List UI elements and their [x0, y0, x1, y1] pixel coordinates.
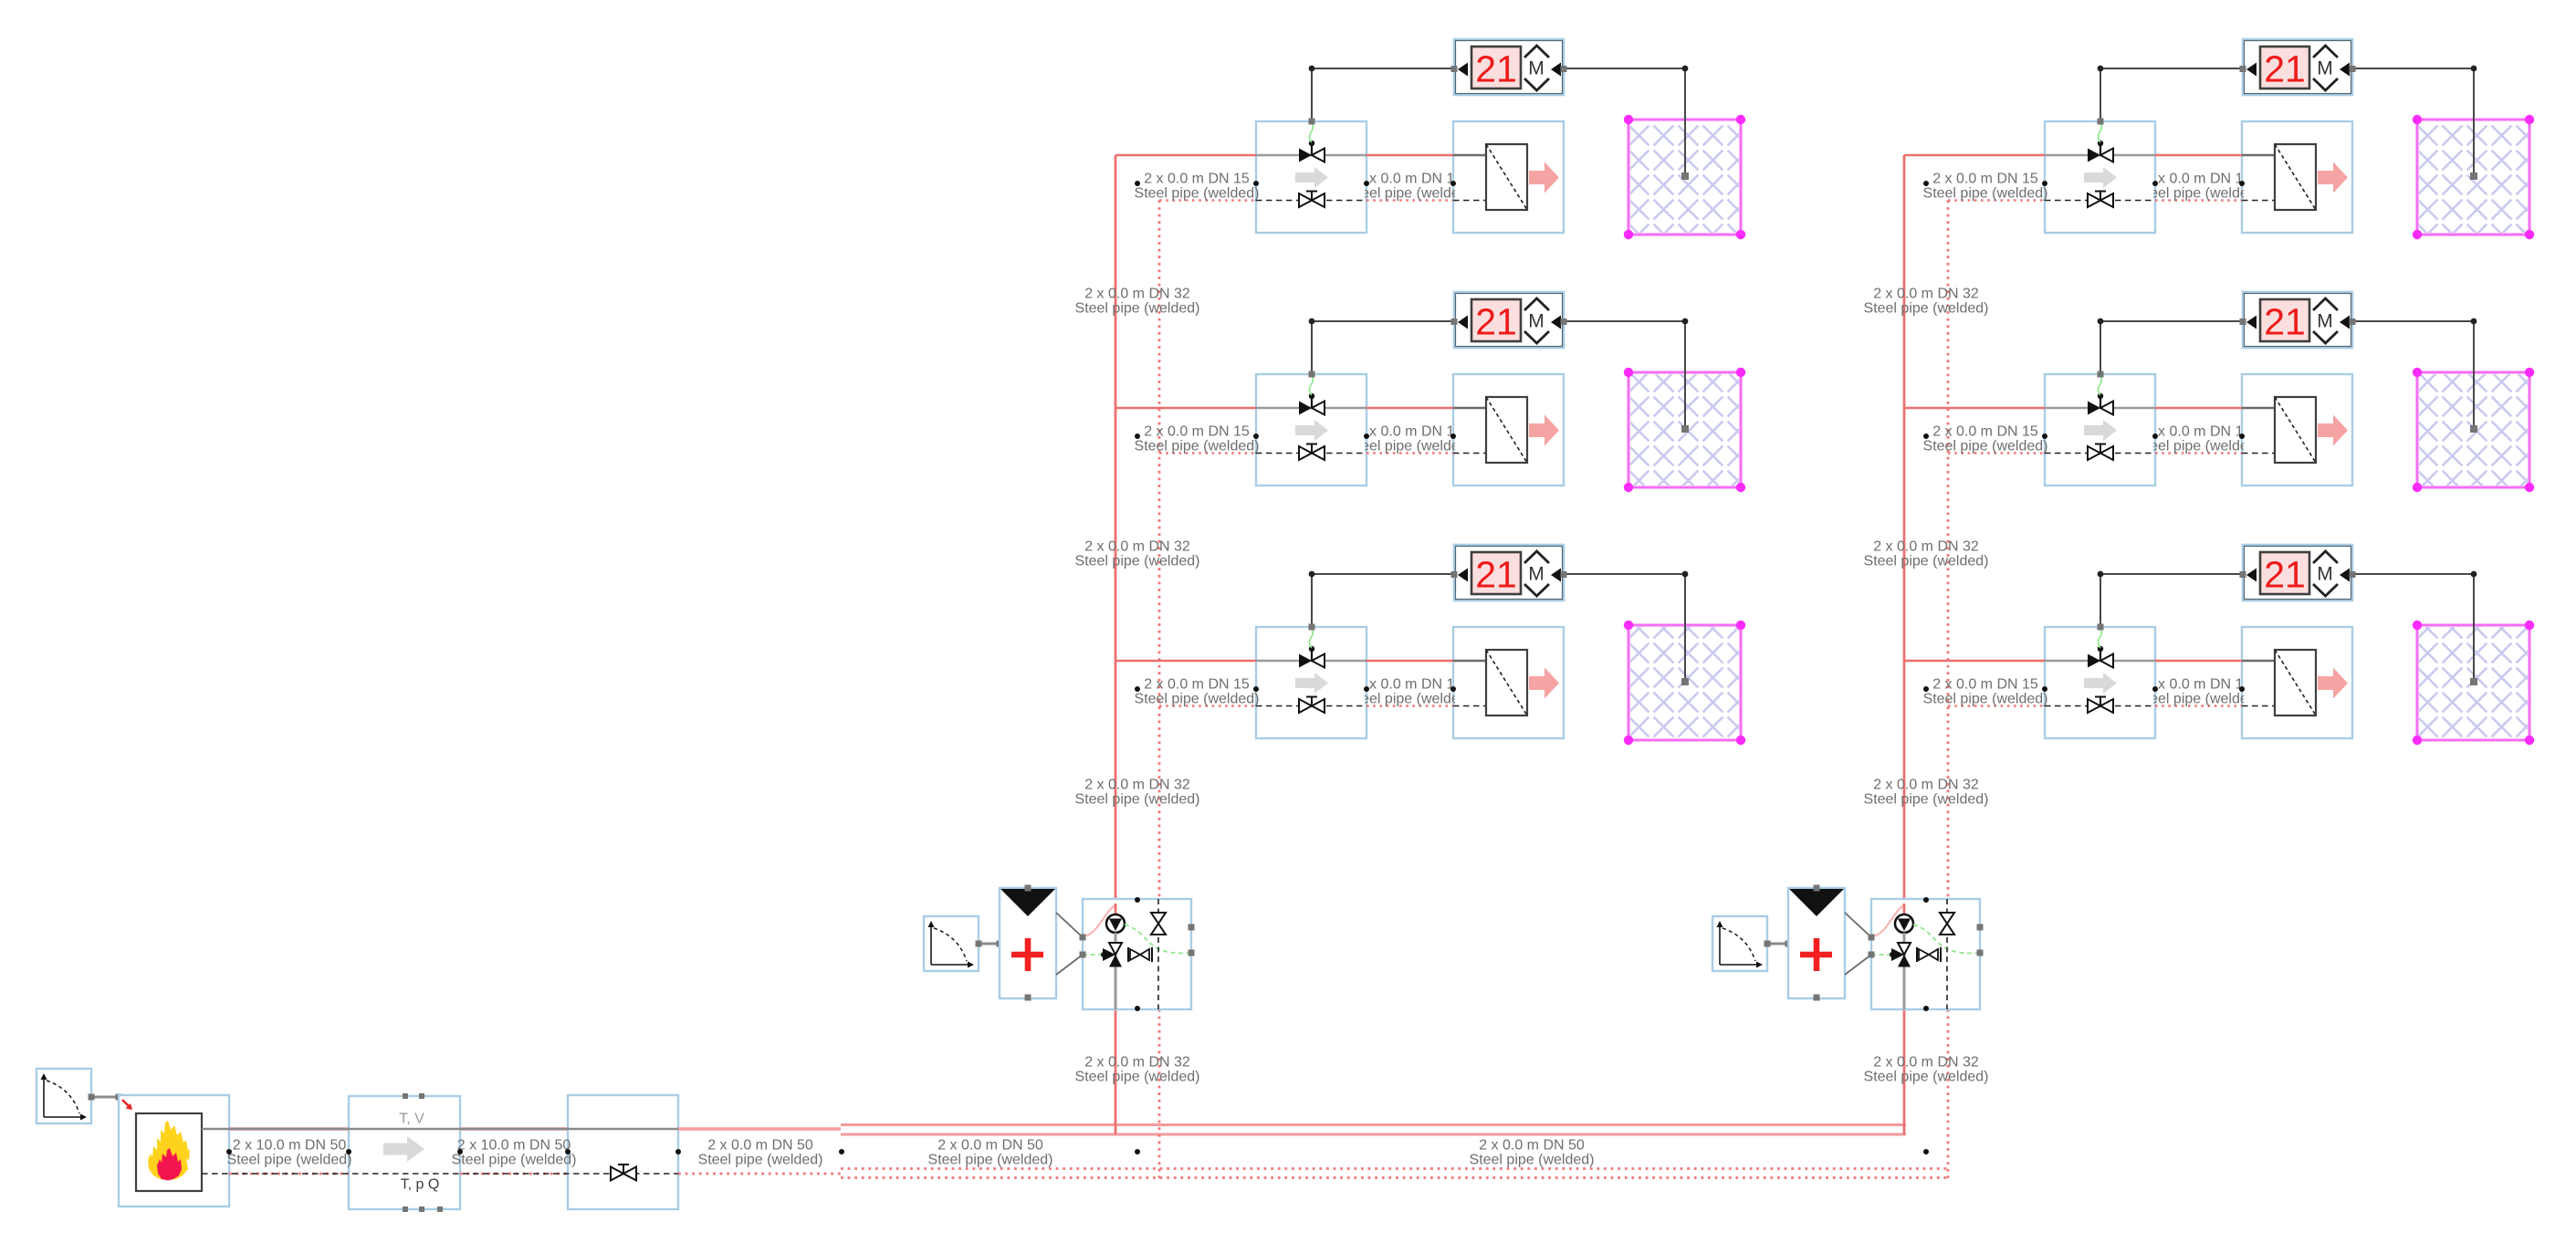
thermostatic valve TV2	[1299, 393, 1325, 415]
wire curve box to boiler	[89, 1094, 122, 1101]
pipe label DN15 riser-valve floor 1	[1135, 172, 1260, 202]
svg-text:2 x 0.0 m DN 15: 2 x 0.0 m DN 15	[1932, 677, 2038, 693]
thermostatic valve TV4	[2088, 141, 2113, 162]
pipe label DN15 riser-valve floor 3	[1135, 677, 1260, 707]
return pipe dotted boiler-junction	[229, 1173, 841, 1175]
svg-text:Steel pipe (welded): Steel pipe (welded)	[2136, 692, 2261, 707]
heat output arrow 5	[2318, 415, 2348, 446]
svg-text:21: 21	[2264, 48, 2306, 90]
svg-text:Steel pipe (welded): Steel pipe (welded)	[1075, 792, 1200, 808]
svg-text:2 x 10.0 m DN 50: 2 x 10.0 m DN 50	[457, 1138, 571, 1154]
supply line inside valve group 4	[2045, 154, 2155, 157]
lockshield valve LV4	[2088, 192, 2113, 208]
room R1	[1624, 115, 1745, 239]
supply pipe riser to valve group floor 3	[1115, 660, 1256, 663]
flow direction arrow in valve group 5	[2084, 420, 2117, 441]
room R6	[2413, 621, 2534, 745]
svg-text:2 x 0.0 m DN 50: 2 x 0.0 m DN 50	[937, 1138, 1043, 1154]
actuator link in valve group 2	[1309, 375, 1313, 395]
riser pipe label DN32 L2	[1075, 539, 1200, 569]
svg-text:2 x 0.0 m DN 15: 2 x 0.0 m DN 15	[1357, 424, 1463, 440]
svg-text:Steel pipe (welded): Steel pipe (welded)	[1347, 692, 1472, 707]
svg-text:2 x 0.0 m DN 32: 2 x 0.0 m DN 32	[1084, 778, 1190, 793]
three-way mixing valve R	[1891, 943, 1911, 967]
pipe junction dots floor 5	[1923, 433, 2245, 439]
measurement module M1	[349, 1093, 460, 1212]
supply pipe valve group to radiator floor 5	[2155, 407, 2242, 410]
return pipe riser to valve group floor 6	[1948, 705, 2045, 707]
supply gray line through boiler and modules	[202, 1128, 678, 1130]
room thermostat T1	[1451, 39, 1567, 95]
actuator link in valve group 6	[2098, 628, 2101, 648]
svg-text:Steel pipe (welded): Steel pipe (welded)	[1864, 301, 1989, 317]
boiler warning marker	[122, 1100, 132, 1110]
supply line inside valve group 2	[1256, 407, 1367, 410]
svg-text:Steel pipe (welded): Steel pipe (welded)	[1075, 301, 1200, 317]
pipe label DN15 valve-radiator floor 5	[2136, 424, 2261, 454]
pump group box R	[1871, 899, 1980, 1009]
pump outlet line L	[1115, 933, 1117, 1009]
svg-text:Steel pipe (welded): Steel pipe (welded)	[1135, 692, 1260, 707]
pipe label DN15 riser-valve floor 4	[1923, 172, 2048, 202]
svg-text:Steel pipe (welded): Steel pipe (welded)	[1923, 692, 2048, 707]
return line inside valve group 3	[1256, 705, 1367, 707]
return pipe valve group to radiator floor 1	[1367, 199, 1453, 202]
supply line inside valve group 3	[1256, 660, 1367, 663]
supply pipe valve group to radiator floor 4	[2155, 154, 2242, 157]
supply pipe valve group to radiator floor 6	[2155, 660, 2242, 663]
supply pipe measurement-valve	[460, 1127, 568, 1131]
return line inside valve group 2	[1256, 453, 1367, 454]
pipe junction dots floor 4	[1923, 181, 2245, 186]
pipe label DN50 riser L - riser R	[1470, 1138, 1595, 1168]
pipe label DN15 valve-radiator floor 1	[1347, 172, 1472, 202]
control wire room sensor to thermostat floor 6	[2352, 571, 2477, 685]
control wire room sensor to thermostat floor 3	[1564, 571, 1689, 685]
svg-text:21: 21	[2264, 301, 2306, 343]
radiator element 5	[2242, 397, 2316, 463]
expansion / pressure maintenance vessel L	[1000, 885, 1056, 1001]
pipe label DN50 junction-riser L	[928, 1138, 1053, 1168]
svg-text:Steel pipe (welded): Steel pipe (welded)	[1923, 186, 2048, 202]
wires expansion vessel to pump box R	[1845, 913, 1871, 975]
thermostatic valve TV1	[1299, 141, 1325, 162]
supply pipe valve-junction	[678, 1127, 841, 1131]
pipe label DN50 valve-junction	[698, 1138, 823, 1168]
pipe junction dots floor 2	[1135, 433, 1456, 439]
radiator box HX5	[2242, 374, 2352, 486]
svg-text:Steel pipe (welded): Steel pipe (welded)	[1864, 1070, 1989, 1085]
pipe junction dots floor 1	[1135, 181, 1456, 186]
control wire valve to thermostat floor 2	[1309, 319, 1455, 378]
supply pipe boiler-measurement	[229, 1127, 349, 1131]
svg-text:M: M	[2317, 58, 2333, 79]
svg-text:Steel pipe (welded): Steel pipe (welded)	[1470, 1153, 1595, 1168]
svg-text:2 x 0.0 m DN 32: 2 x 0.0 m DN 32	[1084, 1055, 1190, 1071]
pipe label DN50 measurement-valve	[452, 1138, 577, 1168]
svg-text:2 x 0.0 m DN 15: 2 x 0.0 m DN 15	[2146, 172, 2252, 187]
supply pipe valve group to radiator floor 2	[1367, 407, 1453, 410]
pipe junction dots floor 3	[1135, 686, 1456, 692]
svg-text:2 x 0.0 m DN 32: 2 x 0.0 m DN 32	[1873, 539, 1979, 555]
radiator box HX2	[1453, 374, 1564, 486]
pipe label DN15 valve-radiator floor 6	[2136, 677, 2261, 707]
thermostatic valve TV3	[1299, 646, 1325, 668]
heating curve box HC0	[37, 1069, 91, 1123]
return pipe valve group to radiator floor 2	[1367, 452, 1453, 454]
main return pipes from risers	[841, 1169, 1948, 1178]
svg-text:Steel pipe (welded): Steel pipe (welded)	[2136, 186, 2261, 202]
radiator element 1	[1453, 144, 1527, 210]
radiator element 4	[2242, 144, 2316, 210]
heat output arrow 1	[1529, 162, 1559, 193]
pipe junction dots floor 6	[1923, 686, 2245, 692]
supply pipe riser to valve group floor 6	[1904, 660, 2045, 663]
radiator box HX3	[1453, 627, 1564, 738]
svg-text:M: M	[1528, 564, 1545, 585]
radiator element 2	[1453, 397, 1527, 463]
svg-text:Steel pipe (welded): Steel pipe (welded)	[1075, 1070, 1200, 1085]
svg-text:Steel pipe (welded): Steel pipe (welded)	[1075, 554, 1200, 569]
lockshield valve LV1	[1299, 192, 1325, 208]
svg-text:21: 21	[2264, 554, 2306, 596]
heat output arrow 3	[1529, 668, 1559, 699]
return pipe riser to valve group floor 2	[1159, 452, 1256, 454]
riser pipe label DN32 R1	[1864, 287, 1989, 317]
svg-text:2 x 0.0 m DN 15: 2 x 0.0 m DN 15	[1144, 172, 1250, 187]
supply pipe riser to valve group floor 2	[1115, 407, 1256, 410]
valve group box V4	[2045, 121, 2155, 233]
lockshield valve LV3	[1299, 697, 1325, 714]
return line inside valve group 1	[1256, 200, 1367, 202]
flow direction arrow in valve group 1	[1295, 167, 1328, 188]
radiator element 6	[2242, 650, 2316, 716]
svg-text:2 x 0.0 m DN 15: 2 x 0.0 m DN 15	[1144, 677, 1250, 693]
shut-off valve module SV1	[568, 1095, 678, 1209]
svg-text:M: M	[2317, 311, 2333, 332]
return line in pump box L	[1157, 899, 1159, 1009]
control wire room sensor to thermostat floor 1	[1564, 66, 1689, 180]
supply line inside valve group 1	[1256, 154, 1367, 157]
circulation pump P-L	[1106, 914, 1125, 933]
thermostatic valve TV6	[2088, 646, 2113, 668]
flow direction arrow in valve group 4	[2084, 167, 2117, 188]
svg-text:2 x 0.0 m DN 15: 2 x 0.0 m DN 15	[1932, 172, 2038, 187]
heating curve box HC-R	[1712, 916, 1767, 971]
circulation pump P-R	[1895, 914, 1913, 933]
return dashed line through boiler and modules	[202, 1173, 678, 1175]
riser pipe label DN32 L1	[1075, 287, 1200, 317]
control wire valve to thermostat floor 6	[2098, 571, 2244, 631]
bottom chain junction dots	[226, 1149, 1929, 1154]
radiator box HX6	[2242, 627, 2352, 738]
svg-text:M: M	[1528, 58, 1545, 79]
svg-text:2 x 0.0 m DN 15: 2 x 0.0 m DN 15	[1357, 172, 1463, 187]
svg-text:2 x 10.0 m DN 50: 2 x 10.0 m DN 50	[233, 1138, 347, 1154]
supply pipe valve group to radiator floor 1	[1367, 154, 1453, 157]
svg-text:M: M	[2317, 564, 2333, 585]
pipe label DN15 riser-valve floor 6	[1923, 677, 2048, 707]
valve group box V6	[2045, 627, 2155, 738]
return pipe riser to valve group floor 3	[1159, 705, 1256, 707]
riser pipe label DN32 R3	[1864, 778, 1989, 808]
room R2	[1624, 368, 1745, 492]
valve group box V5	[2045, 374, 2155, 486]
svg-text:Steel pipe (welded): Steel pipe (welded)	[928, 1153, 1053, 1168]
room R5	[2413, 368, 2534, 492]
supply pipe riser to valve group floor 4	[1904, 154, 2045, 157]
main supply pipes to risers	[841, 1125, 1906, 1135]
return pipe valve group to radiator floor 4	[2155, 199, 2242, 202]
green control curve L	[1083, 924, 1191, 957]
return riser pipe L	[1158, 201, 1161, 1179]
three-way mixing valve L	[1103, 943, 1122, 967]
flow direction arrow in valve group 2	[1295, 420, 1328, 441]
return pipe riser to valve group floor 1	[1159, 199, 1256, 202]
control wire valve to thermostat floor 5	[2098, 319, 2244, 378]
bypass valve R	[1917, 947, 1941, 962]
green control curve R	[1871, 924, 1980, 957]
lockshield valve LV2	[1299, 444, 1325, 461]
svg-text:2 x 0.0 m DN 15: 2 x 0.0 m DN 15	[1932, 424, 2038, 440]
pump box nodes R	[1869, 897, 1984, 1011]
svg-text:Steel pipe (welded): Steel pipe (welded)	[1135, 439, 1260, 454]
room thermostat T2	[1451, 292, 1567, 348]
supply line inside valve group 5	[2045, 407, 2155, 410]
svg-text:2 x 0.0 m DN 50: 2 x 0.0 m DN 50	[707, 1138, 813, 1154]
riser pipe label DN32 L4	[1075, 1055, 1200, 1085]
heat output arrow 2	[1529, 415, 1559, 446]
control wire room sensor to thermostat floor 2	[1564, 319, 1689, 433]
svg-text:Steel pipe (welded): Steel pipe (welded)	[1347, 439, 1472, 454]
room thermostat T4	[2240, 39, 2356, 95]
control wire room sensor to thermostat floor 5	[2352, 319, 2477, 433]
return shut-off valve R	[1940, 913, 1954, 935]
pipe label DN15 valve-radiator floor 3	[1347, 677, 1472, 707]
valve group box V2	[1256, 374, 1367, 486]
svg-text:2 x 0.0 m DN 32: 2 x 0.0 m DN 32	[1873, 1055, 1979, 1071]
lockshield valve LV5	[2088, 444, 2113, 461]
wire curve box to expansion vessel L	[976, 941, 1003, 947]
flow direction arrow in valve group 3	[1295, 673, 1328, 694]
room R4	[2413, 115, 2534, 239]
lockshield valve LV6	[2088, 697, 2113, 714]
supply line inside valve group 6	[2045, 660, 2155, 663]
return pipe valve group to radiator floor 6	[2155, 705, 2242, 707]
svg-text:2 x 0.0 m DN 15: 2 x 0.0 m DN 15	[1144, 424, 1250, 440]
gate valve on return GV1	[611, 1165, 636, 1181]
svg-text:Steel pipe (welded): Steel pipe (welded)	[698, 1153, 823, 1168]
svg-text:T, V: T, V	[399, 1112, 424, 1127]
heating curve box HC-L	[924, 916, 979, 971]
control wire room sensor to thermostat floor 4	[2352, 66, 2477, 180]
return line inside valve group 5	[2045, 453, 2155, 454]
supply pipe riser to valve group floor 1	[1115, 154, 1256, 157]
control wire valve to thermostat floor 3	[1309, 571, 1455, 631]
svg-text:2 x 0.0 m DN 32: 2 x 0.0 m DN 32	[1084, 539, 1190, 555]
svg-text:T, p Q: T, p Q	[401, 1177, 440, 1193]
supply riser pipe L	[1115, 155, 1117, 1134]
room R3	[1624, 621, 1745, 745]
svg-text:2 x 0.0 m DN 32: 2 x 0.0 m DN 32	[1873, 778, 1979, 793]
room thermostat T3	[1451, 545, 1567, 601]
radiator box HX1	[1453, 121, 1564, 233]
burner flame icon	[148, 1121, 190, 1181]
pump box nodes L	[1080, 897, 1195, 1011]
return riser pipe R	[1947, 201, 1950, 1179]
thermostatic valve TV5	[2088, 393, 2113, 415]
flow direction arrow in valve group 6	[2084, 673, 2117, 694]
return shut-off valve L	[1151, 913, 1166, 935]
control wire valve to thermostat floor 4	[2098, 66, 2244, 125]
svg-text:Steel pipe (welded): Steel pipe (welded)	[452, 1153, 577, 1168]
supply entry curve R	[1871, 904, 1904, 936]
room thermostat T6	[2240, 545, 2356, 601]
pipe label DN15 valve-radiator floor 4	[2136, 172, 2261, 202]
svg-text:Steel pipe (welded): Steel pipe (welded)	[1864, 792, 1989, 808]
svg-text:Steel pipe (welded): Steel pipe (welded)	[1347, 186, 1472, 202]
svg-text:Steel pipe (welded): Steel pipe (welded)	[1923, 439, 2048, 454]
pump group box L	[1083, 899, 1191, 1009]
pipe label DN15 riser-valve floor 2	[1135, 424, 1260, 454]
svg-text:2 x 0.0 m DN 15: 2 x 0.0 m DN 15	[2146, 424, 2252, 440]
svg-text:Steel pipe (welded): Steel pipe (welded)	[227, 1153, 352, 1168]
supply riser pipe R	[1903, 155, 1906, 1134]
radiator element 3	[1453, 650, 1527, 716]
riser pipe label DN32 R2	[1864, 539, 1989, 569]
return pipe riser to valve group floor 4	[1948, 199, 2045, 202]
svg-text:2 x 0.0 m DN 15: 2 x 0.0 m DN 15	[1357, 677, 1463, 693]
heat output arrow 4	[2318, 162, 2348, 193]
return pipe riser to valve group floor 5	[1948, 452, 2045, 454]
return pipe valve group to radiator floor 5	[2155, 452, 2242, 454]
wire curve box to expansion vessel R	[1764, 941, 1792, 947]
valve group box V1	[1256, 121, 1367, 233]
svg-text:21: 21	[1475, 48, 1517, 90]
expansion / pressure maintenance vessel R	[1788, 885, 1845, 1001]
svg-text:2 x 0.0 m DN 32: 2 x 0.0 m DN 32	[1084, 287, 1190, 302]
actuator link in valve group 4	[2098, 122, 2101, 142]
valve group box V3	[1256, 627, 1367, 738]
return line inside valve group 4	[2045, 200, 2155, 202]
bypass valve L	[1128, 947, 1152, 962]
riser pipe label DN32 L3	[1075, 778, 1200, 808]
room thermostat T5	[2240, 292, 2356, 348]
supply entry curve L	[1083, 904, 1115, 936]
radiator box HX4	[2242, 121, 2352, 233]
svg-text:Steel pipe (welded): Steel pipe (welded)	[1864, 554, 1989, 569]
svg-text:Steel pipe (welded): Steel pipe (welded)	[1135, 186, 1260, 202]
pipe label DN15 riser-valve floor 5	[1923, 424, 2048, 454]
svg-text:2 x 0.0 m DN 15: 2 x 0.0 m DN 15	[2146, 677, 2252, 693]
pump outlet line R	[1903, 933, 1906, 1009]
return pipe valve group to radiator floor 3	[1367, 705, 1453, 707]
svg-text:21: 21	[1475, 554, 1517, 596]
svg-text:21: 21	[1475, 301, 1517, 343]
svg-text:2 x 0.0 m DN 50: 2 x 0.0 m DN 50	[1479, 1138, 1585, 1154]
return line inside valve group 6	[2045, 705, 2155, 707]
actuator link in valve group 5	[2098, 375, 2101, 395]
pipe label DN15 valve-radiator floor 2	[1347, 424, 1472, 454]
wires expansion vessel to pump box L	[1056, 913, 1083, 975]
riser pipe label DN32 R4	[1864, 1055, 1989, 1085]
actuator link in valve group 3	[1309, 628, 1313, 648]
supply pipe valve group to radiator floor 3	[1367, 660, 1453, 663]
supply pipe riser to valve group floor 5	[1904, 407, 2045, 410]
actuator link in valve group 1	[1309, 122, 1313, 142]
svg-text:Steel pipe (welded): Steel pipe (welded)	[2136, 439, 2261, 454]
heat output arrow 6	[2318, 668, 2348, 699]
return line in pump box R	[1946, 899, 1948, 1009]
control wire valve to thermostat floor 1	[1309, 66, 1455, 125]
boiler B1	[119, 1095, 229, 1206]
pipe label DN50 boiler-measurement	[227, 1138, 352, 1168]
svg-text:2 x 0.0 m DN 32: 2 x 0.0 m DN 32	[1873, 287, 1979, 302]
svg-text:M: M	[1528, 311, 1545, 332]
